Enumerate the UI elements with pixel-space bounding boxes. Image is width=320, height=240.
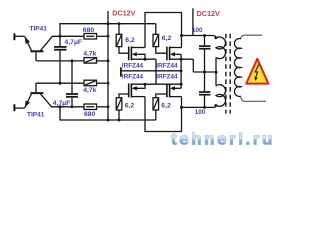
ground bus terminal: [120, 67, 122, 76]
svg-text:4,7µF: 4,7µF: [65, 39, 83, 46]
mosfet M2 IRFZ44: [167, 47, 193, 89]
junction C2 to collector wire Q2: [71, 105, 74, 108]
svg-text:6,2: 6,2: [125, 37, 135, 44]
svg-text:IRFZ44: IRFZ44: [156, 73, 178, 80]
svg-text:tehneri.ru: tehneri.ru: [171, 130, 275, 149]
svg-text:DC12V: DC12V: [197, 9, 220, 18]
junction 12V line / rail A: [107, 22, 110, 25]
common source vertical link: [155, 59, 157, 84]
svg-text:680: 680: [84, 111, 96, 118]
svg-text:TIP41: TIP41: [30, 26, 48, 33]
wire M2 source down to bus: [192, 59, 194, 72]
junction C1 to base wire B: [59, 82, 62, 85]
svg-text:100: 100: [195, 109, 206, 116]
resistor R6 6.2 gate M2: [153, 24, 167, 54]
svg-text:4,7k: 4,7k: [83, 51, 96, 58]
svg-text:680: 680: [83, 27, 95, 34]
junction R2 to 12V line: [107, 105, 110, 108]
junction M4 substrate to source: [180, 83, 183, 86]
junction rail B riser on collector wire Q2: [59, 105, 62, 108]
wire M3 drain jog to bottom: [145, 97, 182, 132]
transformer T1 primary link: [215, 58, 217, 86]
wire M1 drain jog to top: [145, 13, 182, 48]
junction primary bottom end: [214, 104, 217, 107]
resistor R5 6.2 gate M1: [116, 24, 129, 54]
junction R7 bottom on rail B: [118, 119, 121, 122]
ground bus wire: [122, 70, 181, 72]
junction M3 substrate to source: [144, 83, 147, 86]
junction drain A node: [180, 34, 183, 37]
transistor Q2 TIP41: [25, 83, 52, 108]
junction R5 top on rail A: [118, 22, 121, 25]
svg-text:100: 100: [192, 27, 203, 34]
DC12V stub right: [192, 8, 194, 35]
svg-text:IRFZ44: IRFZ44: [122, 63, 144, 70]
wire collector Q2: [52, 106, 85, 108]
transformer T1 core: [226, 34, 230, 114]
resistor R3 4.7k: [84, 58, 97, 64]
junction C3 C4 on tap wire: [203, 71, 206, 74]
base wire A: [36, 60, 84, 62]
wire collector Q1 to node A: [52, 35, 85, 37]
junction M2 substrate to source: [180, 58, 183, 61]
junction primary top end: [214, 36, 217, 39]
capacitor C2 4.7uF: [66, 61, 78, 107]
junction C2 to base wire A: [71, 59, 74, 62]
junction 12V line / rail B: [107, 119, 110, 122]
input terminal 2: [14, 104, 24, 111]
transistor Q1 TIP41: [25, 36, 52, 61]
center tap wire: [193, 71, 216, 73]
junction C4 bottom on drain B wire: [203, 106, 206, 109]
wire node A to 12V line: [97, 35, 109, 37]
svg-text:DC12V: DC12V: [112, 8, 135, 17]
capacitor C1 4.7uF: [54, 36, 67, 83]
junction bus to source link: [180, 70, 183, 73]
transformer T1 primary winding lower: [213, 85, 226, 108]
mosfet M1 IRFZ44: [129, 47, 156, 61]
resistor R7 6.2 gate M3: [116, 94, 129, 120]
svg-text:IRFZ44: IRFZ44: [156, 63, 178, 70]
base wire B: [36, 82, 84, 84]
junction center tap on primary: [215, 71, 218, 74]
junction C3 top on drain A wire: [203, 34, 206, 37]
junction Q1 collector / C1 / rail A: [59, 35, 62, 38]
collector rail A: [60, 24, 156, 37]
mosfet M3 IRFZ44: [129, 83, 181, 97]
svg-text:6,2: 6,2: [125, 103, 135, 110]
resistor R8 6.2 gate M4: [153, 94, 167, 120]
wire drain B to transformer bottom: [182, 106, 214, 108]
svg-text:IRFZ44: IRFZ44: [122, 73, 144, 80]
resistor R4 4.7k: [84, 80, 97, 86]
wire drain A to transformer top: [182, 35, 214, 37]
junction R1 to 12V line: [107, 35, 110, 38]
resistor R1 680: [84, 34, 97, 40]
svg-text:6,2: 6,2: [161, 103, 171, 110]
junction R4 to 12V line: [107, 82, 110, 85]
junction R3 to 12V line: [107, 59, 110, 62]
svg-text:4,7k: 4,7k: [83, 87, 96, 94]
mosfet M4 IRFZ44: [167, 83, 182, 97]
junction drain B node: [180, 106, 183, 109]
svg-text:TIP41: TIP41: [27, 111, 45, 118]
input terminal 1: [14, 33, 24, 40]
warning triangle: [246, 59, 268, 84]
junction M1 substrate to source: [144, 58, 147, 61]
transformer T1 primary winding upper: [213, 36, 226, 59]
DC12V feed line left: [107, 11, 109, 120]
collector rail B: [60, 107, 156, 120]
capacitor C3 100: [199, 36, 211, 73]
resistor R2 680: [84, 104, 97, 110]
capacitor C4 100: [199, 72, 211, 107]
transformer T1 secondary winding: [234, 35, 266, 101]
svg-text:6,2: 6,2: [162, 35, 172, 42]
svg-text:4,7µF: 4,7µF: [53, 100, 71, 107]
